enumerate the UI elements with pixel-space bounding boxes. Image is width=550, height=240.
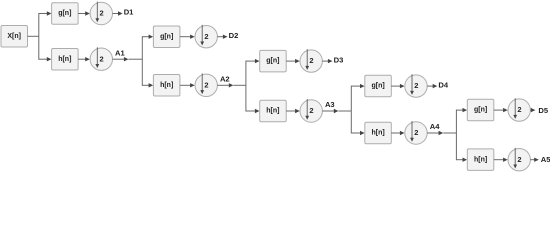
- svg-text:2: 2: [100, 9, 104, 18]
- svg-text:2: 2: [517, 105, 521, 114]
- svg-text:D5: D5: [538, 106, 548, 115]
- svg-text:g[n]: g[n]: [266, 58, 279, 65]
- svg-text:D1: D1: [124, 8, 134, 17]
- svg-text:X[n]: X[n]: [7, 33, 21, 40]
- svg-text:h[n]: h[n]: [58, 56, 71, 63]
- svg-text:A5: A5: [541, 155, 550, 164]
- svg-text:2: 2: [517, 155, 521, 164]
- svg-text:2: 2: [309, 106, 313, 115]
- svg-text:2: 2: [414, 128, 418, 137]
- svg-text:g[n]: g[n]: [474, 107, 487, 114]
- svg-text:h[n]: h[n]: [266, 108, 279, 115]
- svg-text:h[n]: h[n]: [160, 82, 173, 89]
- svg-text:2: 2: [204, 32, 208, 41]
- svg-text:D2: D2: [229, 31, 239, 40]
- svg-text:D4: D4: [438, 80, 448, 89]
- svg-text:h[n]: h[n]: [474, 156, 487, 163]
- svg-text:A3: A3: [325, 100, 335, 109]
- svg-text:g[n]: g[n]: [371, 83, 384, 90]
- svg-text:D3: D3: [334, 55, 344, 64]
- svg-text:g[n]: g[n]: [160, 33, 173, 40]
- svg-text:2: 2: [414, 81, 418, 90]
- svg-text:2: 2: [309, 56, 313, 65]
- svg-text:A4: A4: [430, 122, 440, 131]
- svg-text:A2: A2: [220, 74, 230, 83]
- svg-text:2: 2: [204, 80, 208, 89]
- svg-text:A1: A1: [115, 48, 125, 57]
- svg-text:g[n]: g[n]: [58, 10, 71, 17]
- svg-text:2: 2: [100, 54, 104, 63]
- svg-text:h[n]: h[n]: [371, 130, 384, 137]
